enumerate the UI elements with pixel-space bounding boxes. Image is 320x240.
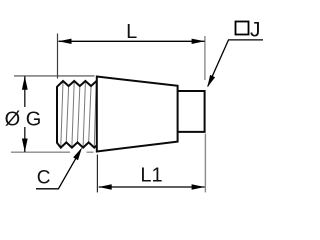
arrowhead L right	[192, 39, 205, 44]
arrowhead G top	[22, 76, 28, 90]
arrowhead L1 right	[192, 184, 205, 189]
label G background mask	[4, 107, 39, 127]
thread outline bottom zigzag	[57, 142, 97, 147]
arrowhead square J leader	[207, 75, 215, 88]
leader line square J	[208, 40, 263, 86]
dimension line diameter G	[24, 76, 26, 152]
extension line left of dimension L	[57, 34, 59, 79]
thread crest line 4	[94, 82, 96, 147]
svg-text:L1: L1	[140, 165, 162, 187]
svg-text:J: J	[250, 19, 261, 42]
thread left edge	[56, 86, 58, 143]
svg-text:L: L	[126, 21, 137, 43]
arrowhead C leader	[73, 148, 82, 161]
thread crest line 2	[72, 82, 74, 147]
cone body outline	[97, 77, 178, 152]
arrowhead G bottom	[22, 139, 28, 153]
thread crest line 1	[61, 82, 63, 147]
thread root line 1	[66, 87, 68, 141]
svg-text:C: C	[37, 168, 51, 189]
svg-text:Ø G: Ø G	[5, 109, 42, 131]
extension line right of dimension L (upper gray)	[204, 36, 206, 80]
extension line left of dimension L1	[96, 155, 98, 193]
arrowhead L left	[59, 39, 72, 44]
dimension line L1	[99, 186, 205, 188]
thread root line 3	[89, 87, 91, 141]
square symbol J	[236, 22, 249, 35]
extension line right of dimension L1 (lower gray)	[204, 134, 206, 193]
extension line bottom of diameter G (right segment)	[87, 151, 94, 153]
leader line C	[36, 149, 81, 189]
arrowhead L1 left	[99, 184, 112, 189]
extension line top of diameter G	[14, 75, 95, 77]
thread root line 2	[78, 87, 80, 141]
thread outline top zigzag	[57, 81, 97, 87]
thread crest line 3	[83, 82, 85, 147]
extension line bottom of diameter G (left segment)	[11, 151, 70, 153]
cylinder end outline	[178, 91, 205, 132]
dimension line L	[59, 40, 205, 42]
